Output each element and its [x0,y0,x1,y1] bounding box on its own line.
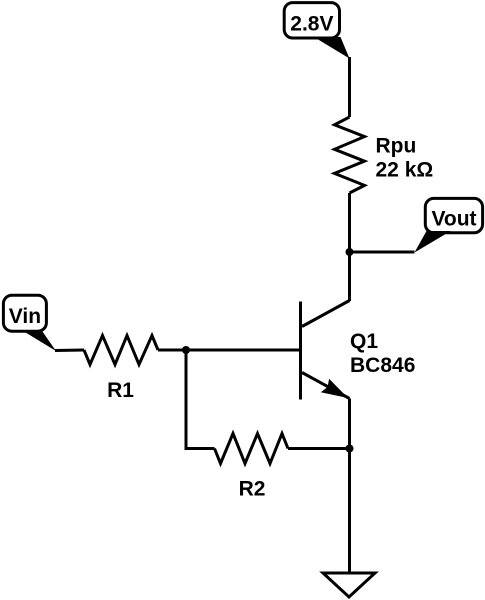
resistor R2 [215,434,289,464]
label Q1 BC846 [350,330,415,377]
wire [288,447,350,450]
ground [323,573,375,597]
label Rpu 22 kOhm [376,135,434,182]
wire (base) [158,349,301,352]
net label 2.8V [284,3,349,59]
transistor Q1 [301,301,350,400]
svg-text:BC846: BC846 [350,354,415,377]
wire [186,350,215,449]
svg-text:Vin: Vin [9,305,41,328]
node (base/R2 junction) [182,346,190,354]
wire (emitter to ground) [348,399,351,574]
svg-text:Vout: Vout [431,208,476,231]
resistor R1 [84,336,158,365]
wire [55,349,84,353]
net label Vin [3,295,56,351]
node (collector/Vout junction) [346,248,354,256]
resistor Rpu [335,117,365,193]
svg-text:Rpu: Rpu [376,135,417,158]
svg-text:R1: R1 [107,379,134,402]
wire [348,193,351,301]
svg-text:22 kΩ: 22 kΩ [376,159,434,182]
svg-text:R2: R2 [239,478,266,501]
wire [348,57,351,117]
net label Vout [415,198,483,252]
svg-text:Q1: Q1 [350,330,378,353]
svg-text:2.8V: 2.8V [290,12,333,35]
node (emitter/R2 junction) [346,445,354,453]
wire [350,251,415,254]
